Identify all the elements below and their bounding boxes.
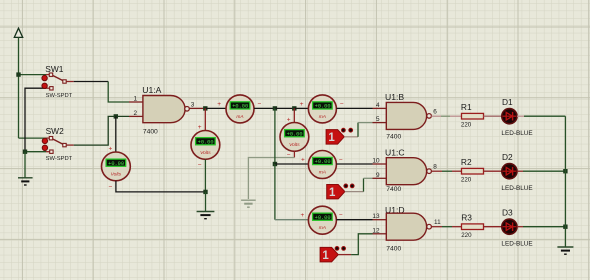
svg-text:1: 1 [329, 187, 336, 199]
pin 5 stub [373, 122, 387, 124]
svg-text:220: 220 [461, 122, 472, 129]
node: junction rail D3 [563, 225, 567, 229]
ground (grey, floating) [241, 200, 256, 207]
svg-text:−: − [109, 183, 113, 190]
wire: down to ground (middle) [205, 192, 207, 211]
pin 10 stub [373, 163, 387, 165]
voltmeter V2 [191, 131, 220, 160]
wire: A4 to U1D pin13 [336, 219, 372, 221]
wire: D3 to right rail [517, 226, 523, 228]
svg-text:+0.00: +0.00 [315, 104, 331, 110]
svg-text:U1:A: U1:A [142, 85, 161, 95]
logic probe 1 (U1D input) [320, 247, 345, 263]
svg-text:10: 10 [372, 158, 380, 165]
svg-text:R1: R1 [461, 102, 472, 112]
node: junction rail D2 [563, 169, 567, 173]
wire: R2 to D2 [484, 170, 502, 172]
resistor R2 [461, 157, 484, 183]
wire: V3 minus to floating ground [293, 151, 295, 157]
pin 9 stub [373, 177, 387, 179]
svg-text:+: + [109, 146, 113, 153]
svg-text:−: − [198, 162, 202, 169]
wire: D2 to right rail [517, 170, 523, 172]
svg-text:1: 1 [328, 132, 335, 144]
switch SW2 (SW-SPDT) [42, 126, 72, 162]
svg-text:1: 1 [322, 250, 329, 262]
svg-text:Volts: Volts [289, 142, 300, 148]
wire: A1 to junction2 [254, 107, 275, 109]
resistor R1 [461, 102, 484, 128]
input terminal arrow [14, 28, 22, 37]
wire: to SW2 top throw [19, 137, 47, 139]
svg-text:R2: R2 [461, 157, 472, 167]
voltmeter V3 [280, 122, 309, 151]
svg-text:+0.00: +0.00 [232, 104, 248, 110]
svg-text:−: − [339, 212, 343, 219]
logic probe 1 (U1C input) [327, 184, 354, 199]
svg-text:U1:C: U1:C [385, 148, 405, 158]
wire: SW2 bottom throw [46, 151, 50, 153]
svg-text:+: + [301, 157, 305, 164]
svg-text:9: 9 [376, 172, 380, 179]
wire: junction to ammeter A1 [205, 107, 226, 109]
node: junction ground net [203, 190, 207, 194]
op-amp/gate U1:A (7400 NAND) [142, 85, 189, 136]
wire: U1C output to R2 [431, 170, 442, 172]
switch SW1 (SW-SPDT) [42, 64, 73, 99]
wire: terminal down left rail [18, 37, 20, 138]
wire: R3 to D3 [484, 226, 502, 228]
LED D1 (LED-BLUE) [501, 97, 532, 137]
svg-text:12: 12 [372, 227, 380, 234]
svg-text:7400: 7400 [386, 246, 401, 253]
svg-text:220: 220 [461, 177, 472, 184]
ammeter A4 [308, 206, 336, 234]
gate U1:B (7400 NAND) [385, 92, 431, 141]
wire: junction3 to ammeter A3 [294, 107, 308, 109]
svg-text:8: 8 [433, 164, 437, 171]
wire: U1B output to R1 [431, 115, 441, 117]
resistor R3 [461, 213, 483, 239]
ammeter A1 [226, 95, 254, 123]
gate U1:D (7400 NAND) [385, 205, 431, 253]
pin 12 stub [373, 233, 387, 235]
svg-text:+0.00: +0.00 [108, 161, 124, 167]
svg-text:+0.00: +0.00 [315, 215, 331, 221]
svg-text:SW-SPDT: SW-SPDT [46, 156, 73, 162]
ground (left) [18, 178, 33, 185]
node: junction V3 [292, 106, 296, 110]
node: junction fanout down [273, 106, 277, 110]
svg-text:4: 4 [376, 102, 380, 109]
wire: V2 minus to ground net [204, 159, 206, 192]
wire: R1 to D1 [484, 115, 502, 117]
svg-text:+: + [301, 212, 305, 219]
pin 13 stub [373, 219, 387, 221]
svg-text:LED-BLUE: LED-BLUE [501, 240, 532, 247]
voltmeter V1 [102, 152, 131, 181]
node: junction terminal/SW1 [16, 72, 20, 76]
svg-text:7400: 7400 [143, 129, 158, 136]
svg-text:+0.00: +0.00 [198, 139, 214, 145]
svg-text:+: + [198, 124, 202, 131]
wire: V3 plus drop [293, 108, 295, 122]
wire: U1A output stub [189, 107, 203, 109]
svg-text:LED-BLUE: LED-BLUE [501, 185, 532, 192]
svg-text:13: 13 [372, 213, 380, 220]
gate U1:C (7400 NAND) [385, 148, 431, 193]
svg-text:+0.00: +0.00 [315, 159, 331, 165]
svg-text:SW1: SW1 [45, 64, 63, 74]
wire: junction down to voltmeter V1 [115, 116, 117, 152]
pin 4 stub [373, 107, 387, 109]
wire: A2 to U1C pin10 [336, 163, 372, 165]
node: junction pin2 / V1 [114, 114, 118, 118]
svg-text:−: − [339, 157, 343, 164]
wire: A3 to U1B pin4 [336, 107, 372, 109]
wire: V1 minus to ground net [116, 181, 206, 192]
wire: probe to U1D pin12 [338, 254, 351, 256]
ground (right) [557, 247, 573, 254]
wire: junction2 to junction3 [275, 107, 294, 109]
svg-text:7400: 7400 [386, 186, 401, 193]
svg-text:mA: mA [236, 114, 243, 120]
svg-text:SW-SPDT: SW-SPDT [46, 93, 73, 99]
svg-text:Volts: Volts [200, 150, 211, 156]
svg-text:2: 2 [133, 110, 137, 117]
wire: SW2 common to U1A pin2 [66, 144, 73, 146]
pin 2 stub [129, 115, 143, 117]
svg-text:+: + [300, 101, 304, 108]
svg-text:+: + [217, 101, 221, 108]
wire: fanout drop to A4 row [274, 164, 276, 220]
svg-text:3: 3 [191, 102, 195, 109]
svg-text:Volts: Volts [111, 172, 122, 178]
svg-text:11: 11 [434, 219, 441, 226]
wire: probe to U1C pin9 [345, 191, 364, 193]
LED D3 (LED-BLUE) [501, 207, 532, 247]
ammeter A3 [308, 95, 336, 123]
wire: SW1 bottom throw to ground rail [46, 87, 50, 89]
svg-text:LED-BLUE: LED-BLUE [501, 130, 532, 137]
svg-text:5: 5 [376, 116, 380, 123]
svg-text:+0.00: +0.00 [287, 131, 303, 137]
node: junction SW2 bottom / ground [23, 150, 27, 154]
svg-text:220: 220 [461, 232, 472, 239]
wire: U1D output to R3 [431, 226, 442, 228]
svg-text:6: 6 [433, 109, 437, 116]
svg-text:R3: R3 [461, 213, 472, 223]
svg-text:U1:B: U1:B [385, 92, 404, 102]
LED D2 (LED-BLUE) [501, 152, 532, 192]
svg-text:mA: mA [319, 170, 326, 176]
node: junction A2 [273, 162, 277, 166]
svg-text:SW2: SW2 [46, 126, 64, 136]
ammeter A2 [308, 151, 336, 179]
svg-text:mA: mA [319, 225, 326, 231]
svg-text:1: 1 [133, 96, 137, 103]
wire: SW1 common to U1A pin1 [66, 81, 73, 83]
svg-text:mA: mA [319, 114, 326, 120]
logic probe 1 (U1B input) [326, 128, 353, 144]
wire: V2 plus drop [204, 108, 206, 130]
wire: fanout drop to A2 row [274, 108, 276, 164]
ground (middle) [197, 212, 215, 219]
svg-text:7400: 7400 [386, 134, 401, 141]
wire: probe1 to U1B pin5 [344, 136, 358, 138]
wire: right rail [564, 116, 566, 247]
svg-text:D3: D3 [502, 207, 513, 217]
svg-text:−: − [340, 101, 344, 108]
wire: down to ground [24, 152, 26, 178]
wire: junction to A2 [275, 163, 309, 165]
pin 1 stub [129, 101, 143, 103]
wire: D1 to right rail [517, 115, 524, 117]
svg-text:−: − [258, 101, 262, 108]
svg-text:D1: D1 [502, 97, 513, 107]
node: junction out/V2 [203, 106, 207, 110]
svg-text:D2: D2 [502, 152, 513, 162]
wire: to SW1 top throw [19, 74, 47, 76]
